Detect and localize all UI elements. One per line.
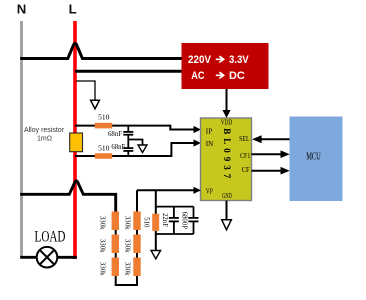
resistor 330k L3 <box>112 258 119 277</box>
wire L to AC-DC converter <box>75 70 182 73</box>
capacitor 68nF C2 <box>123 140 133 157</box>
wire below 510 <box>155 231 157 251</box>
wire VP line to chip <box>137 189 195 191</box>
wire L (live, red vertical) <box>73 21 77 259</box>
svg-text:VDD: VDD <box>221 120 233 127</box>
svg-text:330k: 330k <box>99 262 106 276</box>
svg-text:510: 510 <box>98 144 110 153</box>
arrow into MCU (CF1) <box>281 150 290 158</box>
open arrow down (VP gnd) <box>151 251 161 259</box>
left divider chain wire <box>116 190 137 285</box>
wire SEL from MCU to chip <box>260 138 290 140</box>
open arrow down (caps midpoint) <box>138 145 147 153</box>
open arrow down (GND) <box>222 220 232 230</box>
svg-text:Alloy resistor: Alloy resistor <box>24 127 65 134</box>
capacitor 68nF C1 <box>123 126 133 140</box>
lamp symbol <box>37 247 58 268</box>
AC-DC converter box <box>182 43 269 89</box>
resistor 330k R2 <box>133 235 140 254</box>
wire CF to MCU <box>252 170 282 172</box>
svg-text:CF1: CF1 <box>240 152 251 160</box>
resistor 330k L1 <box>112 212 119 231</box>
wire VDD converter to chip <box>226 89 228 111</box>
svg-text:IP: IP <box>206 127 213 135</box>
arrow into VP pin <box>194 187 202 194</box>
svg-text:N: N <box>17 2 27 17</box>
wire N (neutral, gray vertical) <box>20 21 23 258</box>
svg-text:22nF: 22nF <box>161 213 168 227</box>
capacitor 6800P <box>188 207 198 234</box>
wire IN line from L to chip <box>75 143 195 156</box>
arrow into SEL pin (pointing left) <box>252 135 262 143</box>
svg-text:330k: 330k <box>124 239 131 253</box>
svg-text:68nF: 68nF <box>108 131 122 138</box>
lamp wires <box>20 256 37 259</box>
svg-text:CF: CF <box>242 166 250 174</box>
arrow into IN pin <box>194 139 202 146</box>
svg-text:VP: VP <box>206 188 213 196</box>
resistor 510 (VP to gnd) <box>152 214 159 231</box>
arrow into IP pin <box>194 126 202 133</box>
cap network rails <box>156 206 194 208</box>
svg-text:220V: 220V <box>188 54 212 66</box>
resistor 510 (IN series) <box>95 153 112 159</box>
wire L tap <box>76 81 95 100</box>
svg-text:330k: 330k <box>99 239 106 253</box>
wire N to AC-DC converter (hop over L) <box>20 43 181 58</box>
wire 510 drop from VP line <box>155 190 157 214</box>
svg-text:510: 510 <box>98 113 110 122</box>
open arrow down at L tap <box>91 100 100 109</box>
svg-text:MCU: MCU <box>306 151 321 163</box>
wire GND down from chip <box>226 201 228 220</box>
wire load line N-side with hop over L <box>20 181 116 212</box>
svg-text:3.3V: 3.3V <box>229 54 249 66</box>
resistor 330k R3 <box>133 258 140 277</box>
svg-text:SEL: SEL <box>239 135 250 143</box>
svg-text:LOAD: LOAD <box>35 228 66 245</box>
arrow into MCU (CF) <box>281 167 290 175</box>
svg-text:6800P: 6800P <box>181 212 188 230</box>
arrow into VDD pin <box>222 110 230 118</box>
wire CF1 to MCU <box>252 153 282 155</box>
ground branch between caps <box>128 140 142 146</box>
svg-text:68nF: 68nF <box>111 144 125 151</box>
wire IP line from L to chip <box>75 126 195 130</box>
svg-text:330k: 330k <box>99 216 106 230</box>
svg-text:IN: IN <box>206 140 214 148</box>
resistor 330k R1 <box>133 212 140 231</box>
svg-text:L: L <box>69 2 77 17</box>
svg-text:1mΩ: 1mΩ <box>37 136 52 143</box>
svg-text:AC: AC <box>191 70 204 82</box>
svg-text:330k: 330k <box>124 216 131 230</box>
resistor 330k L2 <box>112 235 119 254</box>
svg-text:DC: DC <box>229 70 245 82</box>
resistor 510 (IP series) <box>95 123 112 129</box>
MCU box <box>290 117 343 202</box>
svg-text:330k: 330k <box>124 262 131 276</box>
svg-text:GND: GND <box>222 193 232 200</box>
chip BL0937 U1 <box>201 118 252 201</box>
svg-text:510: 510 <box>143 217 150 228</box>
alloy resistor shunt 1mOhm <box>70 133 83 152</box>
capacitor 22nF <box>169 207 179 234</box>
